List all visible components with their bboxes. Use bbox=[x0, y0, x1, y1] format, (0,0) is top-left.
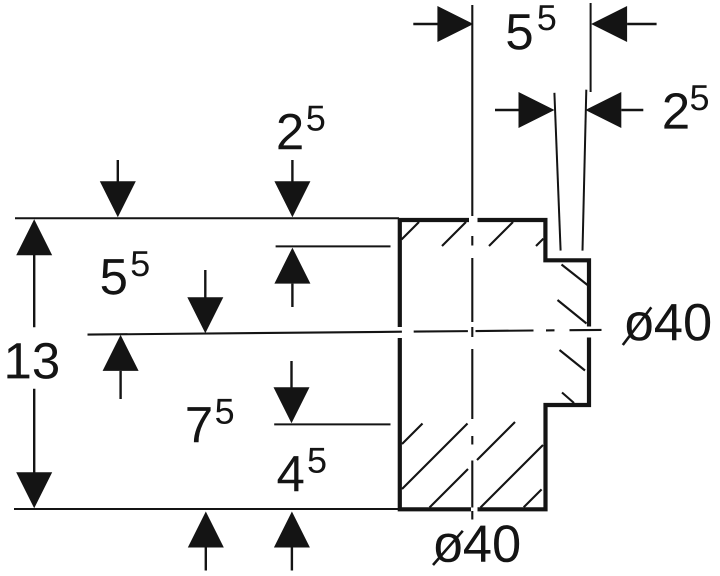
horizontal centerline (dash-dot, slightly tilted) bbox=[88, 330, 602, 335]
vertical centerline (dash-dot) bbox=[471, 5, 473, 520]
arrow B down (dim 2.5 left) bbox=[274, 160, 310, 217]
label 5.5 top bbox=[507, 5, 555, 50]
label 2.5 right bbox=[664, 85, 708, 128]
hatch lower section bbox=[402, 422, 543, 508]
part outline lower-right (right edge below centerline, lower step, bottom edge right) bbox=[478, 338, 590, 510]
top dimension 5.5 line left arrow bbox=[413, 6, 473, 42]
label 13 bbox=[7, 343, 58, 379]
slanted extension line right (2.5 right dim) bbox=[583, 90, 587, 251]
label diameter 40 right bbox=[627, 304, 710, 341]
arrow G up (dim 4.5, onto bottom edge) bbox=[274, 512, 310, 571]
label 2.5 left bbox=[278, 106, 324, 149]
hatch socket wall (opposite direction) bbox=[558, 265, 588, 404]
top dimension 5.5 line right arrow bbox=[591, 6, 657, 42]
slanted extension line left (2.5 right dim) bbox=[554, 93, 560, 251]
reference line inner bottom bbox=[274, 423, 390, 425]
dimension 2.5 right line left arrow bbox=[495, 92, 555, 128]
label diameter 40 bottom bbox=[436, 525, 519, 562]
part outline lower-left (bottom edge left + left edge below centerline) bbox=[400, 338, 471, 509]
part outline upper-left (left edge + top edge left of centerline gap) bbox=[400, 220, 469, 327]
arrow F down (dim 7.5, onto inner bottom line) bbox=[274, 361, 310, 423]
reference line bottom edge bbox=[14, 508, 398, 510]
label 4.5 bbox=[278, 448, 326, 491]
arrow A down (dim 2.5 left, onto top edge) bbox=[100, 160, 136, 217]
hatch top band bbox=[402, 222, 544, 246]
label 7.5 bbox=[187, 399, 233, 442]
part outline upper-right (top edge, right side wall, upper step) bbox=[478, 220, 590, 327]
arrow C up (onto inner top line) bbox=[274, 248, 310, 307]
label 5.5 left bbox=[102, 251, 149, 294]
dimension 13 line with arrows bbox=[16, 219, 52, 508]
arrow H up (onto bottom edge) bbox=[188, 512, 224, 571]
reference line inner top bbox=[276, 245, 391, 247]
extension line right for top dimension bbox=[590, 3, 592, 92]
arrow D down (dim 5.5 left, onto centerline) bbox=[187, 270, 223, 333]
dimension 2.5 right line right arrow bbox=[585, 92, 643, 128]
reference line top edge bbox=[15, 217, 399, 219]
arrow E up (dim 7.5, onto centerline) bbox=[103, 335, 139, 399]
